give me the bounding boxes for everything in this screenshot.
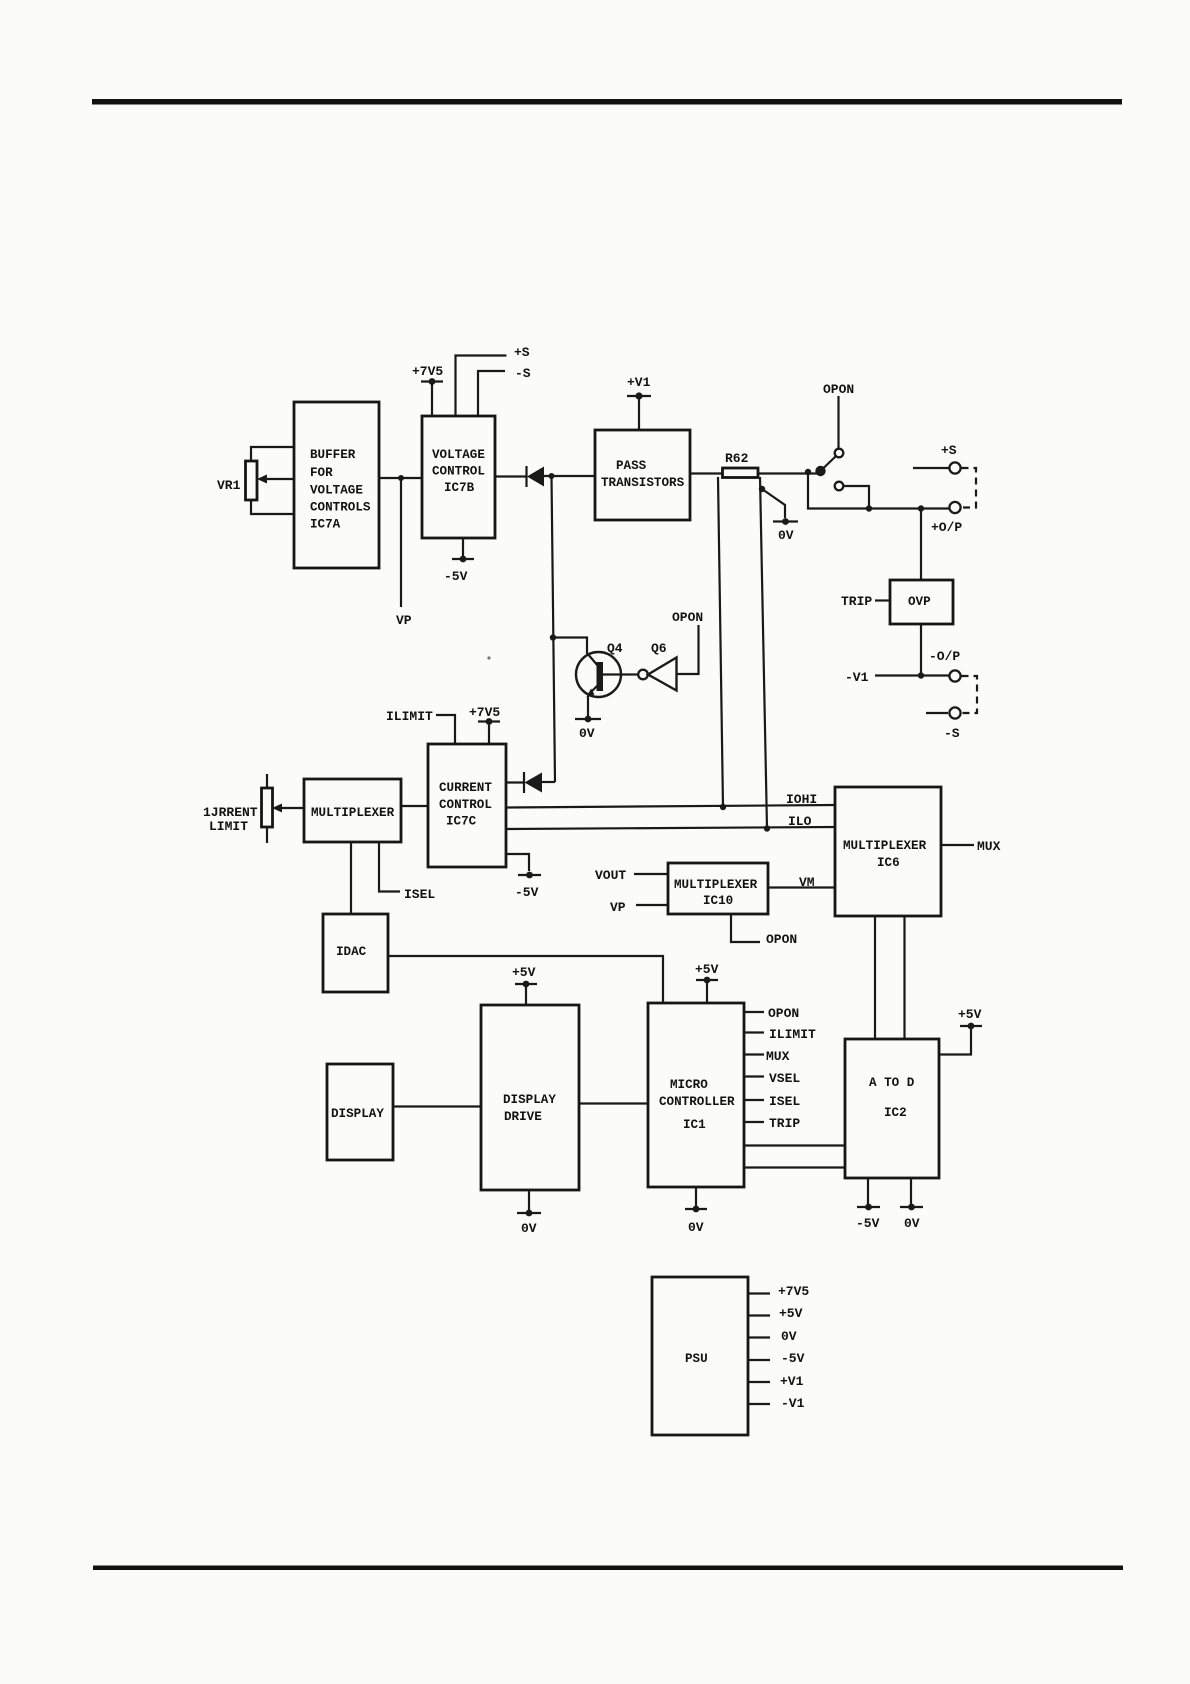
node IOHI junction <box>720 804 726 810</box>
svg-text:BUFFER: BUFFER <box>310 448 356 462</box>
svg-text:+V1: +V1 <box>627 375 651 390</box>
wire voltage control to diode <box>495 475 527 477</box>
svg-text:IC7A: IC7A <box>310 518 341 532</box>
wire Q4 emitter to 0V <box>587 696 589 716</box>
wire ILO <box>506 827 835 829</box>
svg-text:CURRENT: CURRENT <box>439 781 492 795</box>
svg-text:DISPLAY: DISPLAY <box>503 1093 556 1107</box>
svg-text:+S: +S <box>514 345 530 360</box>
svg-text:PSU: PSU <box>685 1352 708 1366</box>
wire rail to OVP <box>920 509 922 581</box>
wire TRIP to OVP <box>875 599 890 601</box>
svg-text:+5V: +5V <box>958 1007 982 1022</box>
block voltage control IC7B <box>422 416 495 538</box>
block PSU <box>652 1277 748 1435</box>
pin +7V5 <box>748 1292 770 1294</box>
bottom page rule <box>93 1566 1123 1571</box>
svg-text:VOLTAGE: VOLTAGE <box>432 448 485 462</box>
wire sense tap to 0V <box>762 489 785 518</box>
svg-text:IC7B: IC7B <box>444 481 475 495</box>
block buffer for voltage controls IC7A <box>294 402 379 568</box>
svg-text:IC1: IC1 <box>683 1118 706 1132</box>
node sense tap <box>759 486 765 492</box>
svg-text:VR1: VR1 <box>217 478 241 493</box>
svg-text:+7V5: +7V5 <box>412 364 443 379</box>
wire OPON to switch contact <box>837 396 839 448</box>
pin MUX <box>744 1053 764 1055</box>
svg-text:R62: R62 <box>725 451 749 466</box>
wire OVP down to -V1 node <box>920 624 922 676</box>
wire junction down to output rail <box>808 472 950 509</box>
node switch junction <box>805 469 811 475</box>
wire display drive to micro <box>579 1102 648 1104</box>
svg-text:FOR: FOR <box>310 466 333 480</box>
pin VSEL <box>744 1075 764 1077</box>
svg-text:CONTROL: CONTROL <box>432 465 485 479</box>
svg-text:OPON: OPON <box>823 382 854 397</box>
svg-text:MULTIPLEXER: MULTIPLEXER <box>674 878 758 892</box>
svg-text:+S: +S <box>941 443 957 458</box>
wire vertical drop from diode node <box>552 476 556 782</box>
svg-text:IC10: IC10 <box>703 894 733 908</box>
node rail junction 2 <box>918 505 924 511</box>
block multiplexer IC6 <box>835 787 941 916</box>
inverter bubble Q6 <box>638 670 648 680</box>
svg-text:CONTROLLER: CONTROLLER <box>659 1095 735 1109</box>
node VP junction <box>398 475 404 481</box>
wire VOUT to IC10 <box>634 873 668 875</box>
svg-text:0V: 0V <box>688 1220 704 1235</box>
svg-text:-O/P: -O/P <box>929 649 960 664</box>
svg-text:CONTROL: CONTROL <box>439 798 492 812</box>
pin -5V <box>748 1359 770 1361</box>
terminal -O/P <box>949 670 960 681</box>
wire IC6 to ADC left <box>874 916 876 1039</box>
svg-text:OVP: OVP <box>908 595 931 609</box>
svg-text:CONTROLS: CONTROLS <box>310 501 371 515</box>
power -5V below voltage control <box>462 538 464 556</box>
wire IDAC to micro controller <box>388 956 663 1003</box>
svg-text:-S: -S <box>944 726 960 741</box>
transistor Q4 <box>576 652 621 697</box>
node rail junction 1 <box>866 505 872 511</box>
wire IOHI <box>506 805 835 808</box>
svg-text:0V: 0V <box>778 528 794 543</box>
ground -5V below ADC <box>867 1178 869 1204</box>
inverter Q6 <box>648 658 677 691</box>
ground 0V below micro <box>695 1187 697 1206</box>
svg-text:MICRO: MICRO <box>670 1078 708 1092</box>
svg-text:MUX: MUX <box>766 1049 790 1064</box>
node after diode <box>549 473 555 479</box>
svg-text:LIMIT: LIMIT <box>209 819 248 834</box>
node ILO junction <box>764 825 770 831</box>
wire VR1 top to buffer <box>251 447 294 461</box>
block display <box>327 1064 393 1160</box>
terminal +S <box>949 462 960 473</box>
wire collector junction to Q4 <box>553 638 598 667</box>
svg-text:VP: VP <box>610 900 626 915</box>
dashed link -O/P to -S <box>962 676 978 713</box>
svg-text:IC6: IC6 <box>877 856 900 870</box>
wire VP to IC10 <box>636 904 668 906</box>
svg-text:ISEL: ISEL <box>769 1094 800 1109</box>
svg-text:TRANSISTORS: TRANSISTORS <box>601 476 685 490</box>
wire right drop from R62 to ILO <box>760 477 767 829</box>
svg-text:VP: VP <box>396 613 412 628</box>
ground 0V below ADC <box>910 1178 912 1204</box>
svg-text:+5V: +5V <box>779 1306 803 1321</box>
wire ILIMIT to current control <box>436 715 455 744</box>
svg-text:+5V: +5V <box>695 962 719 977</box>
switch lower contact circle <box>835 482 844 491</box>
node Q4 collector junction <box>550 634 556 640</box>
wire multiplexer to current control <box>401 805 428 807</box>
svg-text:DRIVE: DRIVE <box>504 1110 542 1124</box>
potentiometer current limit <box>262 788 273 827</box>
top page rule <box>92 99 1122 105</box>
wire -S <box>478 371 505 416</box>
svg-text:ILIMIT: ILIMIT <box>386 709 433 724</box>
svg-text:+O/P: +O/P <box>931 520 962 535</box>
node -V1 junction <box>918 672 924 678</box>
svg-text:-V1: -V1 <box>845 670 869 685</box>
svg-text:+V1: +V1 <box>780 1374 804 1389</box>
svg-text:0V: 0V <box>579 726 595 741</box>
svg-text:-V1: -V1 <box>781 1396 805 1411</box>
wire buffer to voltage control <box>379 477 422 479</box>
svg-text:-5V: -5V <box>515 885 539 900</box>
wire current control to diode D2 <box>506 781 524 783</box>
block IDAC <box>323 914 388 992</box>
bus micro to ADC upper <box>744 1144 845 1146</box>
wire multiplexer to IDAC <box>350 842 352 914</box>
svg-text:PASS: PASS <box>616 459 647 473</box>
svg-text:IDAC: IDAC <box>336 945 367 959</box>
block A to D IC2 <box>845 1039 939 1178</box>
svg-text:MUX: MUX <box>977 839 1001 854</box>
svg-text:0V: 0V <box>904 1216 920 1231</box>
wire VP <box>400 478 402 607</box>
wire VR1 wiper <box>263 478 294 480</box>
pin -V1 <box>748 1403 770 1405</box>
wire -V1 to -O/P terminal <box>875 674 949 676</box>
block display drive <box>481 1005 579 1190</box>
pin ILIMIT <box>744 1031 764 1033</box>
svg-text:-5V: -5V <box>781 1351 805 1366</box>
pin TRIP <box>744 1121 764 1123</box>
svg-text:DISPLAY: DISPLAY <box>331 1107 384 1121</box>
svg-text:OPON: OPON <box>672 610 703 625</box>
switch pole dot <box>815 466 825 476</box>
wire left drop from R62 to IOHI <box>718 477 723 807</box>
svg-text:MULTIPLEXER: MULTIPLEXER <box>843 839 927 853</box>
svg-text:ILO: ILO <box>788 814 812 829</box>
wire OPON below IC10 <box>731 914 760 942</box>
wire lower contact to rail <box>844 486 870 509</box>
wire diode D2 to vertical <box>542 781 555 783</box>
svg-text:+7V5: +7V5 <box>469 705 500 720</box>
pin ISEL <box>744 1099 764 1101</box>
wire ISEL <box>379 842 400 892</box>
block multiplexer (current) <box>304 779 401 842</box>
block OVP <box>890 580 953 624</box>
pin 0V <box>748 1336 770 1338</box>
switch arm <box>823 457 836 469</box>
dashed link +S to +O/P <box>962 468 977 508</box>
svg-text:MULTIPLEXER: MULTIPLEXER <box>311 806 395 820</box>
resistor R62 <box>723 468 759 478</box>
svg-text:ISEL: ISEL <box>404 887 435 902</box>
svg-text:-S: -S <box>515 366 531 381</box>
svg-text:TRIP: TRIP <box>841 594 872 609</box>
terminal +O/P <box>949 502 960 513</box>
svg-text:-5V: -5V <box>856 1216 880 1231</box>
power -5V below current control <box>506 854 529 871</box>
svg-text:VOLTAGE: VOLTAGE <box>310 484 363 498</box>
speck noise <box>487 656 490 659</box>
pin +V1 <box>748 1381 770 1383</box>
pin OPON <box>744 1011 764 1013</box>
wire Q4 base to inverter <box>603 673 638 675</box>
block pass transistors <box>595 430 690 520</box>
block multiplexer IC10 <box>668 863 768 914</box>
svg-text:+5V: +5V <box>512 965 536 980</box>
block current control IC7C <box>428 744 506 867</box>
block micro controller IC1 <box>648 1003 744 1187</box>
wire pass transistors to switch <box>690 472 818 474</box>
wire VR1 bottom to buffer <box>251 500 294 514</box>
svg-text:VOUT: VOUT <box>595 868 626 883</box>
svg-text:0V: 0V <box>781 1329 797 1344</box>
svg-text:0V: 0V <box>521 1221 537 1236</box>
terminal -S <box>949 707 960 718</box>
svg-text:IC2: IC2 <box>884 1106 907 1120</box>
wire diode to pass transistors <box>544 475 595 477</box>
wire VM <box>768 886 835 888</box>
svg-text:IC7C: IC7C <box>446 815 477 829</box>
wire Q6 input from OPON <box>677 625 699 674</box>
bus micro to ADC lower <box>744 1166 845 1168</box>
svg-text:-5V: -5V <box>444 569 468 584</box>
svg-text:VM: VM <box>799 875 815 890</box>
svg-text:1JRRENT: 1JRRENT <box>203 805 258 820</box>
diode D1 <box>525 466 527 487</box>
svg-text:Q4: Q4 <box>607 641 623 656</box>
ground 0V under Q4 <box>575 718 601 720</box>
wire IC6 to ADC right <box>903 916 905 1039</box>
svg-text:ILIMIT: ILIMIT <box>769 1027 816 1042</box>
potentiometer VR1 <box>246 461 258 500</box>
svg-text:OPON: OPON <box>766 932 797 947</box>
ground 0V near R62 <box>773 520 798 522</box>
svg-text:+7V5: +7V5 <box>778 1284 809 1299</box>
wire +S stub <box>913 467 949 469</box>
wire -S stub <box>926 712 948 714</box>
svg-text:VSEL: VSEL <box>769 1071 800 1086</box>
svg-text:IOHI: IOHI <box>786 792 817 807</box>
pin +5V <box>748 1314 770 1316</box>
wire wiper to multiplexer <box>278 807 304 809</box>
wire +S <box>456 356 507 417</box>
svg-text:OPON: OPON <box>768 1006 799 1021</box>
svg-text:A TO D: A TO D <box>869 1076 915 1090</box>
svg-text:Q6: Q6 <box>651 641 667 656</box>
switch contact circle <box>835 449 844 458</box>
diode D2 <box>523 772 525 793</box>
ground 0V below display drive <box>528 1190 530 1210</box>
svg-text:TRIP: TRIP <box>769 1116 800 1131</box>
wire MUX <box>941 844 974 846</box>
wire display to display drive <box>393 1105 481 1107</box>
